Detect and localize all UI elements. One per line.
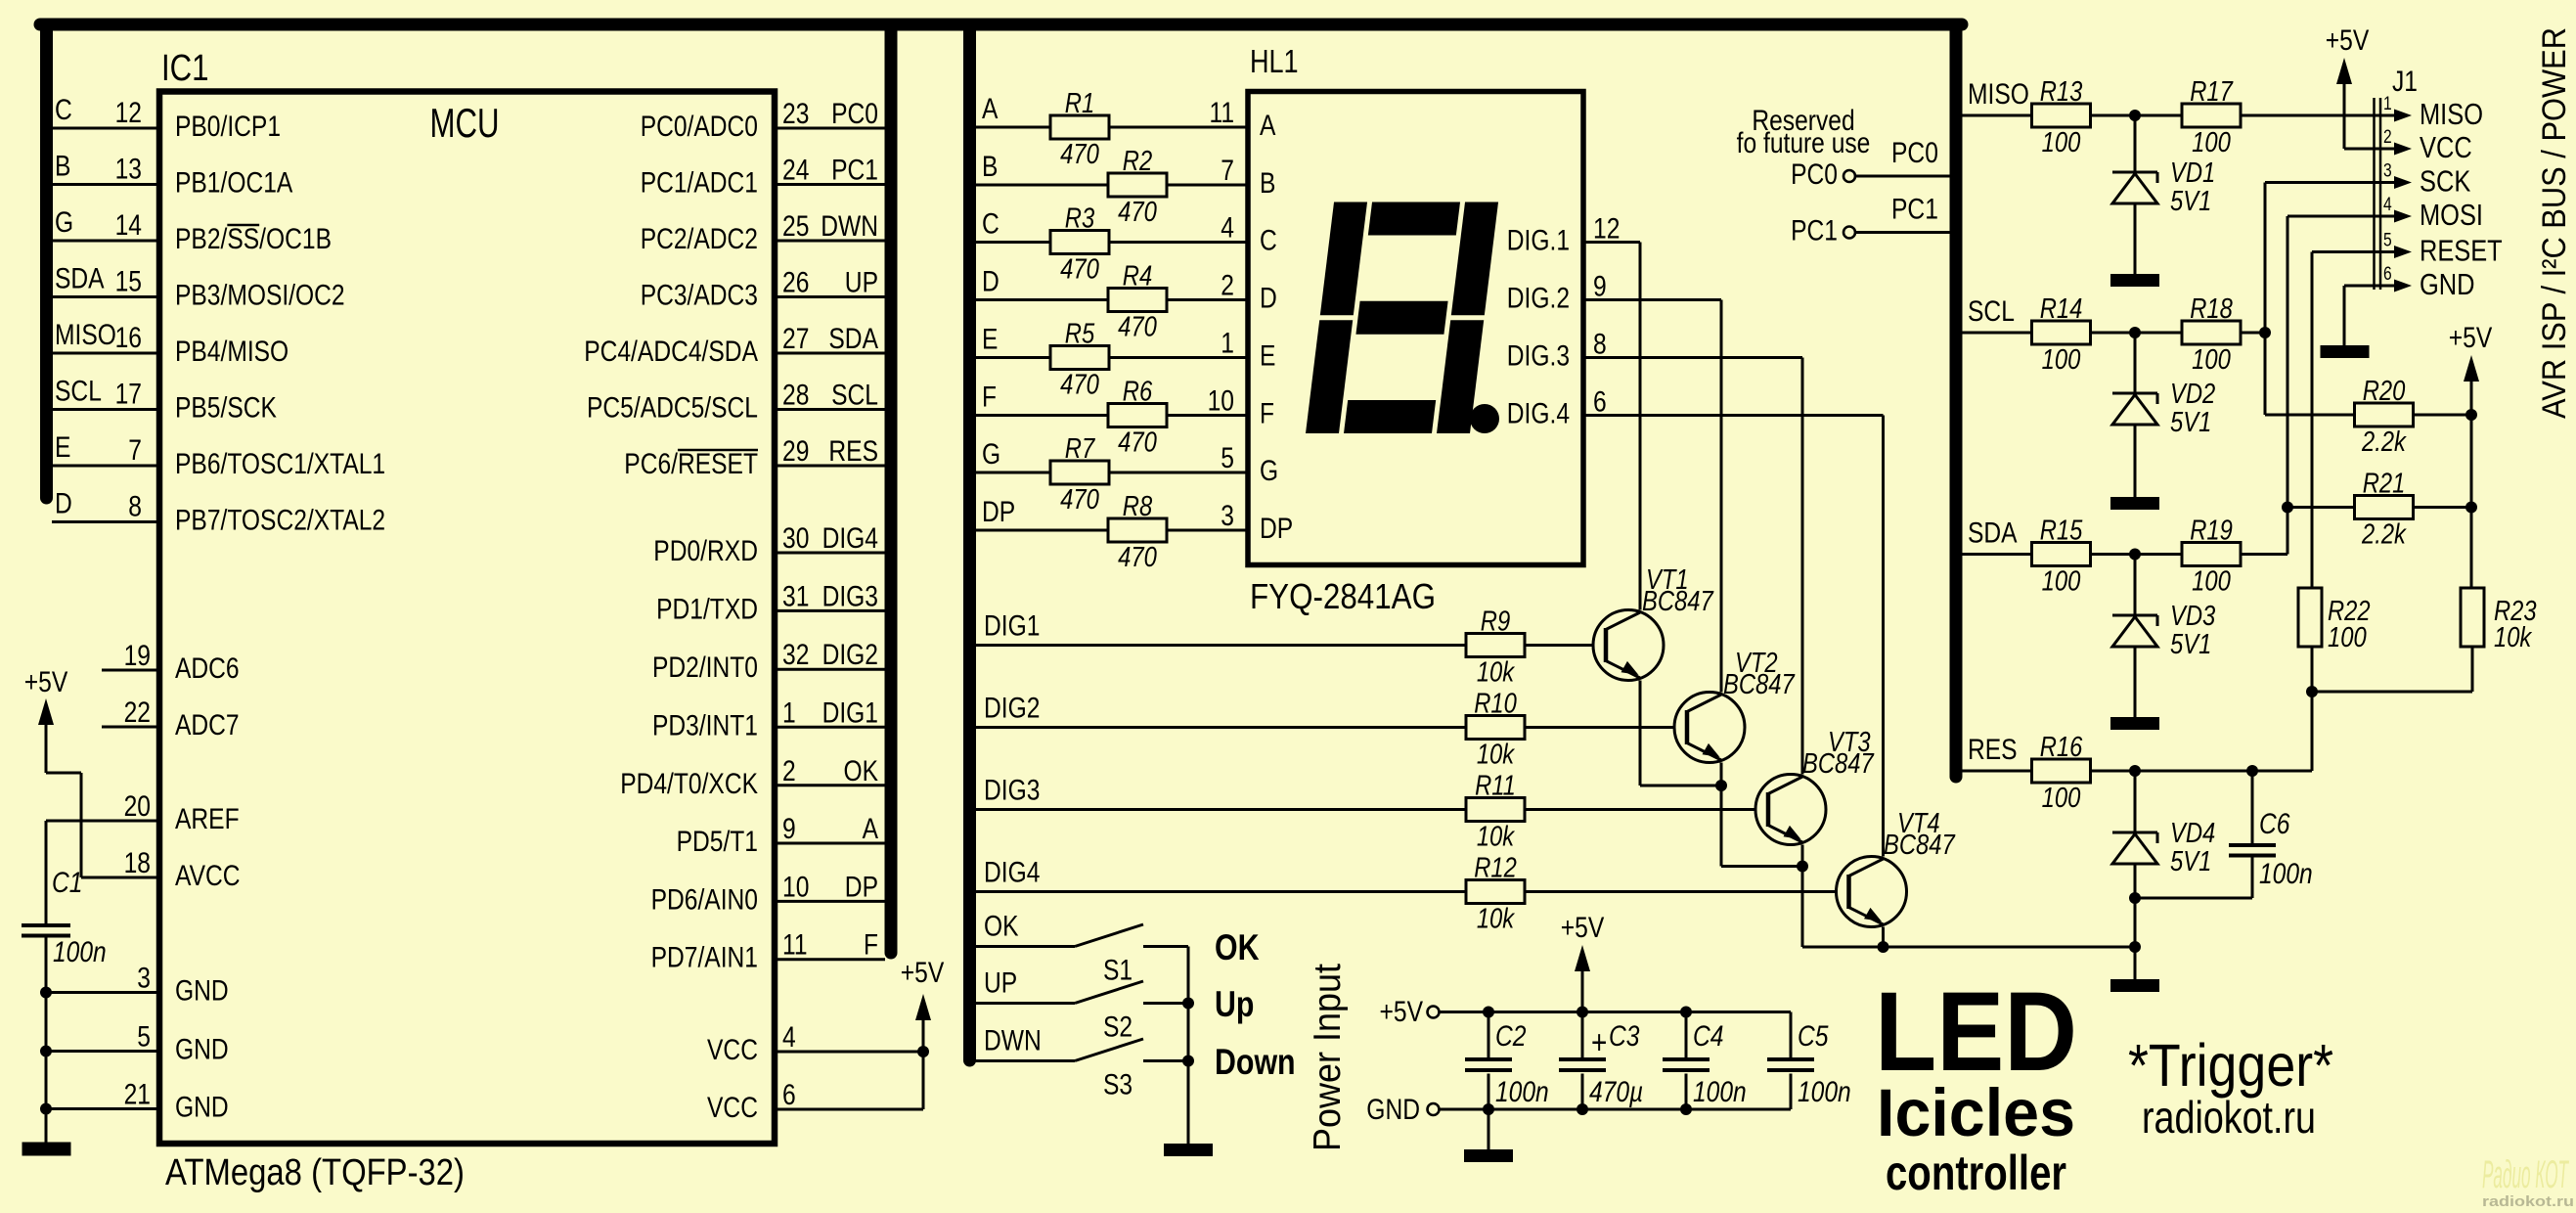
svg-text:GND: GND bbox=[2420, 267, 2475, 301]
svg-text:27: 27 bbox=[782, 323, 809, 355]
svg-text:DIG.4: DIG.4 bbox=[1507, 398, 1570, 430]
svg-text:DIG1: DIG1 bbox=[984, 610, 1040, 643]
svg-text:fo future use: fo future use bbox=[1737, 127, 1871, 159]
svg-text:5V1: 5V1 bbox=[2170, 407, 2211, 438]
svg-text:R18: R18 bbox=[2190, 293, 2233, 325]
svg-text:PD7/AIN1: PD7/AIN1 bbox=[651, 942, 758, 974]
svg-text:PB5/SCK: PB5/SCK bbox=[175, 392, 277, 425]
svg-text:MCU: MCU bbox=[430, 100, 500, 146]
svg-text:3: 3 bbox=[137, 963, 151, 995]
svg-text:DIG.3: DIG.3 bbox=[1507, 340, 1570, 373]
svg-text:S2: S2 bbox=[1103, 1011, 1133, 1044]
svg-text:+5V: +5V bbox=[901, 957, 945, 989]
svg-text:PB4/MISO: PB4/MISO bbox=[175, 336, 289, 368]
svg-text:2.2k: 2.2k bbox=[2361, 427, 2407, 458]
svg-text:100n: 100n bbox=[1495, 1076, 1549, 1108]
svg-text:RES: RES bbox=[828, 435, 878, 468]
svg-text:PC0/ADC0: PC0/ADC0 bbox=[641, 111, 758, 143]
svg-text:10k: 10k bbox=[1477, 657, 1516, 689]
svg-text:C3: C3 bbox=[1609, 1020, 1640, 1053]
svg-text:Down: Down bbox=[1215, 1042, 1296, 1082]
svg-text:PB6/TOSC1/XTAL1: PB6/TOSC1/XTAL1 bbox=[175, 448, 385, 480]
svg-text:10: 10 bbox=[782, 871, 809, 903]
svg-text:100: 100 bbox=[2042, 127, 2081, 158]
svg-text:470µ: 470µ bbox=[1589, 1076, 1643, 1108]
svg-text:VD2: VD2 bbox=[2170, 379, 2215, 410]
svg-text:12: 12 bbox=[1593, 213, 1620, 246]
svg-text:100: 100 bbox=[2042, 783, 2081, 814]
svg-text:D: D bbox=[55, 488, 72, 520]
svg-text:OK: OK bbox=[984, 911, 1019, 943]
svg-text:100: 100 bbox=[2192, 566, 2231, 598]
svg-text:R16: R16 bbox=[2040, 732, 2083, 763]
svg-text:SCL: SCL bbox=[831, 380, 878, 412]
svg-text:PC2/ADC2: PC2/ADC2 bbox=[641, 223, 758, 255]
svg-text:IC1: IC1 bbox=[161, 48, 209, 89]
svg-text:PC1: PC1 bbox=[831, 155, 878, 187]
svg-text:4: 4 bbox=[1221, 212, 1234, 245]
svg-text:100n: 100n bbox=[53, 936, 107, 968]
svg-text:BC847: BC847 bbox=[1802, 748, 1875, 780]
svg-text:SDA: SDA bbox=[828, 323, 878, 355]
svg-text:PD2/INT0: PD2/INT0 bbox=[652, 651, 758, 684]
svg-text:25: 25 bbox=[782, 210, 809, 243]
svg-text:ADC6: ADC6 bbox=[175, 652, 240, 685]
svg-text:17: 17 bbox=[115, 379, 142, 411]
svg-text:R8: R8 bbox=[1123, 491, 1152, 522]
svg-text:6: 6 bbox=[1593, 386, 1607, 419]
svg-text:5V1: 5V1 bbox=[2170, 629, 2211, 660]
svg-text:DIG4: DIG4 bbox=[822, 522, 878, 555]
svg-text:SCK: SCK bbox=[2420, 164, 2471, 199]
svg-text:PC0: PC0 bbox=[1891, 137, 1938, 169]
svg-text:8: 8 bbox=[128, 491, 142, 523]
svg-text:DP: DP bbox=[982, 496, 1015, 528]
svg-text:R14: R14 bbox=[2040, 293, 2083, 325]
svg-text:8: 8 bbox=[1593, 329, 1607, 361]
svg-text:ADC7: ADC7 bbox=[175, 709, 240, 741]
svg-text:VD3: VD3 bbox=[2170, 601, 2215, 632]
svg-text:C1: C1 bbox=[52, 867, 83, 899]
svg-text:A: A bbox=[1260, 110, 1275, 142]
svg-text:Icicles: Icicles bbox=[1877, 1075, 2075, 1150]
svg-text:5: 5 bbox=[137, 1021, 151, 1054]
svg-text:R3: R3 bbox=[1065, 203, 1094, 235]
svg-text:G: G bbox=[982, 438, 1000, 471]
svg-text:3: 3 bbox=[2383, 161, 2392, 182]
svg-text:+5V: +5V bbox=[2326, 24, 2370, 57]
svg-text:32: 32 bbox=[782, 639, 809, 671]
svg-text:7: 7 bbox=[128, 434, 142, 467]
svg-text:470: 470 bbox=[1060, 484, 1099, 516]
svg-text:470: 470 bbox=[1118, 312, 1157, 343]
svg-text:R4: R4 bbox=[1123, 261, 1152, 292]
svg-text:RESET: RESET bbox=[2420, 234, 2503, 268]
svg-text:100: 100 bbox=[2042, 344, 2081, 376]
svg-text:A: A bbox=[982, 93, 998, 125]
svg-text:10k: 10k bbox=[2494, 622, 2533, 653]
svg-text:11: 11 bbox=[782, 929, 808, 962]
svg-text:100: 100 bbox=[2192, 344, 2231, 376]
svg-text:*Trigger*: *Trigger* bbox=[2128, 1032, 2333, 1099]
svg-text:10k: 10k bbox=[1477, 740, 1516, 771]
svg-text:PC1/ADC1: PC1/ADC1 bbox=[641, 167, 758, 200]
svg-text:5: 5 bbox=[1221, 442, 1234, 474]
svg-text:PD6/AIN0: PD6/AIN0 bbox=[651, 883, 758, 916]
svg-text:29: 29 bbox=[782, 435, 809, 468]
svg-text:21: 21 bbox=[124, 1079, 151, 1111]
svg-text:9: 9 bbox=[1593, 271, 1607, 303]
svg-text:DWN: DWN bbox=[821, 210, 878, 243]
svg-text:GND: GND bbox=[175, 1034, 229, 1066]
svg-text:D: D bbox=[982, 266, 999, 298]
svg-text:SCL: SCL bbox=[1968, 295, 2015, 328]
svg-text:E: E bbox=[55, 431, 70, 464]
svg-text:1: 1 bbox=[1221, 328, 1234, 360]
svg-text:C2: C2 bbox=[1495, 1020, 1527, 1053]
svg-text:2: 2 bbox=[782, 755, 796, 787]
svg-text:J1: J1 bbox=[2392, 66, 2418, 98]
svg-text:20: 20 bbox=[124, 790, 151, 823]
svg-text:DIG2: DIG2 bbox=[822, 639, 878, 671]
svg-text:DWN: DWN bbox=[984, 1025, 1042, 1057]
svg-text:PD5/T1: PD5/T1 bbox=[677, 826, 758, 858]
svg-text:GND: GND bbox=[175, 975, 229, 1008]
svg-text:C: C bbox=[55, 94, 72, 126]
svg-text:470: 470 bbox=[1060, 370, 1099, 401]
svg-text:VD1: VD1 bbox=[2170, 157, 2215, 189]
svg-text:GND: GND bbox=[175, 1092, 229, 1124]
svg-text:+5V: +5V bbox=[1380, 996, 1424, 1028]
svg-text:4: 4 bbox=[2383, 195, 2392, 215]
svg-text:B: B bbox=[55, 151, 70, 183]
svg-text:VCC: VCC bbox=[707, 1092, 758, 1124]
svg-text:E: E bbox=[982, 324, 998, 356]
svg-text:VCC: VCC bbox=[2420, 130, 2472, 164]
svg-text:MISO: MISO bbox=[1968, 78, 2029, 111]
svg-text:PB0/ICP1: PB0/ICP1 bbox=[175, 111, 281, 143]
svg-text:PC1: PC1 bbox=[1791, 215, 1838, 247]
svg-text:12: 12 bbox=[115, 97, 142, 129]
svg-text:MISO: MISO bbox=[2420, 97, 2483, 131]
svg-text:16: 16 bbox=[115, 322, 142, 354]
svg-text:B: B bbox=[1260, 167, 1275, 200]
svg-text:F: F bbox=[864, 929, 878, 962]
svg-text:B: B bbox=[982, 151, 998, 183]
svg-text:SDA: SDA bbox=[1968, 517, 2018, 550]
svg-text:26: 26 bbox=[782, 267, 809, 299]
svg-text:Power Input: Power Input bbox=[1307, 964, 1349, 1151]
svg-text:19: 19 bbox=[124, 640, 151, 672]
svg-text:DIG.1: DIG.1 bbox=[1507, 225, 1570, 257]
svg-text:PB7/TOSC2/XTAL2: PB7/TOSC2/XTAL2 bbox=[175, 505, 385, 537]
svg-text:G: G bbox=[55, 206, 73, 239]
svg-text:RES: RES bbox=[1968, 734, 2018, 766]
svg-text:OK: OK bbox=[1215, 927, 1260, 967]
svg-text:F: F bbox=[982, 382, 997, 414]
svg-text:5: 5 bbox=[2383, 231, 2392, 251]
svg-text:100n: 100n bbox=[1693, 1076, 1747, 1108]
svg-text:DIG3: DIG3 bbox=[984, 775, 1040, 807]
svg-text:D: D bbox=[1260, 283, 1277, 315]
svg-text:R19: R19 bbox=[2190, 516, 2233, 547]
svg-text:100n: 100n bbox=[1798, 1076, 1851, 1108]
svg-text:PC5/ADC5/SCL: PC5/ADC5/SCL bbox=[587, 392, 758, 425]
svg-text:R6: R6 bbox=[1123, 377, 1153, 408]
svg-text:PC6/RESET: PC6/RESET bbox=[624, 448, 758, 480]
svg-text:+: + bbox=[1591, 1024, 1607, 1061]
svg-text:DIG.2: DIG.2 bbox=[1507, 283, 1570, 315]
svg-text:PD1/TXD: PD1/TXD bbox=[656, 593, 758, 625]
svg-text:24: 24 bbox=[782, 155, 809, 187]
svg-text:F: F bbox=[1260, 398, 1274, 430]
svg-text:SDA: SDA bbox=[55, 263, 105, 295]
svg-text:DIG3: DIG3 bbox=[822, 580, 878, 612]
svg-text:PC0: PC0 bbox=[831, 98, 878, 130]
svg-text:100n: 100n bbox=[2259, 858, 2313, 890]
svg-text:R1: R1 bbox=[1065, 88, 1094, 119]
svg-text:E: E bbox=[1260, 340, 1275, 373]
svg-text:ATMega8 (TQFP-32): ATMega8 (TQFP-32) bbox=[165, 1152, 465, 1193]
svg-text:100: 100 bbox=[2328, 622, 2367, 653]
svg-text:15: 15 bbox=[115, 266, 142, 298]
svg-text:R5: R5 bbox=[1065, 319, 1095, 350]
svg-text:Радио КОТ: Радио КОТ bbox=[2482, 1153, 2569, 1196]
svg-text:+5V: +5V bbox=[2449, 322, 2493, 354]
svg-text:AVCC: AVCC bbox=[175, 860, 241, 892]
svg-text:S1: S1 bbox=[1103, 955, 1133, 987]
svg-text:470: 470 bbox=[1118, 197, 1157, 228]
svg-text:PC0: PC0 bbox=[1791, 158, 1838, 191]
svg-text:28: 28 bbox=[782, 380, 809, 412]
svg-text:R10: R10 bbox=[1474, 689, 1517, 720]
svg-text:+5V: +5V bbox=[1561, 912, 1605, 944]
svg-text:UP: UP bbox=[984, 967, 1017, 1000]
svg-text:2: 2 bbox=[2383, 127, 2392, 148]
svg-text:100: 100 bbox=[2192, 127, 2231, 158]
svg-text:radiokot.ru: radiokot.ru bbox=[2482, 1193, 2574, 1210]
svg-text:7: 7 bbox=[1221, 155, 1234, 187]
svg-text:9: 9 bbox=[782, 813, 796, 845]
svg-text:PB3/MOSI/OC2: PB3/MOSI/OC2 bbox=[175, 280, 345, 312]
svg-text:C: C bbox=[982, 208, 999, 241]
svg-text:MOSI: MOSI bbox=[2420, 198, 2483, 232]
svg-text:PD3/INT1: PD3/INT1 bbox=[652, 709, 758, 741]
svg-text:10: 10 bbox=[1208, 385, 1234, 418]
svg-text:OK: OK bbox=[844, 755, 879, 787]
svg-text:VD4: VD4 bbox=[2170, 818, 2215, 849]
svg-text:13: 13 bbox=[115, 154, 142, 186]
svg-text:18: 18 bbox=[124, 847, 151, 879]
svg-text:SCL: SCL bbox=[55, 376, 102, 408]
svg-text:FYQ-2841AG: FYQ-2841AG bbox=[1250, 576, 1436, 616]
svg-text:11: 11 bbox=[1210, 97, 1235, 129]
svg-text:HL1: HL1 bbox=[1250, 43, 1299, 79]
svg-text:BC847: BC847 bbox=[1642, 586, 1714, 617]
svg-text:radiokot.ru: radiokot.ru bbox=[2142, 1092, 2316, 1143]
svg-text:R12: R12 bbox=[1474, 853, 1517, 884]
svg-text:AVR ISP / I²C BUS / POWER: AVR ISP / I²C BUS / POWER bbox=[2536, 27, 2573, 419]
svg-text:31: 31 bbox=[782, 580, 809, 612]
svg-text:22: 22 bbox=[124, 696, 151, 729]
svg-text:2.2k: 2.2k bbox=[2361, 519, 2407, 551]
svg-text:1: 1 bbox=[782, 696, 796, 729]
svg-text:14: 14 bbox=[115, 209, 142, 242]
svg-text:470: 470 bbox=[1060, 254, 1099, 286]
svg-text:controller: controller bbox=[1886, 1146, 2066, 1200]
svg-text:470: 470 bbox=[1118, 427, 1157, 459]
svg-text:10k: 10k bbox=[1477, 822, 1516, 853]
svg-text:C5: C5 bbox=[1798, 1020, 1829, 1053]
svg-text:6: 6 bbox=[782, 1079, 796, 1111]
svg-text:VCC: VCC bbox=[707, 1034, 758, 1066]
svg-text:470: 470 bbox=[1118, 542, 1157, 573]
svg-text:R20: R20 bbox=[2363, 376, 2406, 407]
svg-text:MISO: MISO bbox=[55, 319, 116, 351]
svg-text:PC4/ADC4/SDA: PC4/ADC4/SDA bbox=[584, 336, 758, 368]
svg-text:R21: R21 bbox=[2363, 469, 2406, 500]
svg-text:+5V: +5V bbox=[24, 666, 68, 698]
svg-text:PB1/OC1A: PB1/OC1A bbox=[175, 167, 292, 200]
svg-text:BC847: BC847 bbox=[1884, 830, 1956, 861]
svg-text:Up: Up bbox=[1215, 984, 1254, 1024]
svg-text:UP: UP bbox=[845, 267, 878, 299]
svg-text:DIG4: DIG4 bbox=[984, 857, 1040, 889]
svg-text:10k: 10k bbox=[1477, 904, 1516, 935]
svg-text:1: 1 bbox=[2383, 94, 2392, 114]
svg-text:5V1: 5V1 bbox=[2170, 186, 2211, 217]
svg-text:DP: DP bbox=[1260, 513, 1293, 545]
svg-text:6: 6 bbox=[2383, 264, 2392, 285]
svg-text:A: A bbox=[863, 813, 878, 845]
svg-text:R9: R9 bbox=[1481, 606, 1510, 638]
svg-text:PD4/T0/XCK: PD4/T0/XCK bbox=[620, 768, 758, 800]
svg-text:23: 23 bbox=[782, 98, 809, 130]
svg-text:3: 3 bbox=[1221, 500, 1234, 532]
svg-text:R7: R7 bbox=[1065, 433, 1096, 465]
svg-text:R15: R15 bbox=[2040, 516, 2083, 547]
svg-text:C4: C4 bbox=[1693, 1020, 1724, 1053]
svg-text:AREF: AREF bbox=[175, 803, 240, 835]
svg-text:GND: GND bbox=[1366, 1094, 1420, 1126]
svg-text:DIG1: DIG1 bbox=[822, 696, 878, 729]
svg-text:R17: R17 bbox=[2190, 76, 2234, 108]
svg-text:C: C bbox=[1260, 225, 1277, 257]
svg-text:DIG2: DIG2 bbox=[984, 693, 1040, 725]
svg-text:R13: R13 bbox=[2040, 76, 2083, 108]
svg-text:R2: R2 bbox=[1123, 146, 1152, 177]
svg-text:30: 30 bbox=[782, 522, 809, 555]
svg-text:4: 4 bbox=[782, 1021, 796, 1054]
svg-text:R11: R11 bbox=[1475, 771, 1516, 802]
svg-text:C6: C6 bbox=[2259, 808, 2290, 840]
svg-text:5V1: 5V1 bbox=[2170, 846, 2211, 877]
svg-text:G: G bbox=[1260, 455, 1278, 487]
svg-text:470: 470 bbox=[1060, 139, 1099, 170]
svg-text:PD0/RXD: PD0/RXD bbox=[653, 535, 758, 567]
svg-text:PB2/SS/OC1B: PB2/SS/OC1B bbox=[175, 223, 332, 255]
svg-text:PC1: PC1 bbox=[1891, 194, 1938, 226]
svg-text:PC3/ADC3: PC3/ADC3 bbox=[641, 280, 758, 312]
svg-text:DP: DP bbox=[845, 871, 878, 903]
svg-text:2: 2 bbox=[1221, 270, 1234, 302]
svg-text:S3: S3 bbox=[1103, 1069, 1133, 1101]
svg-text:BC847: BC847 bbox=[1723, 669, 1796, 700]
svg-text:100: 100 bbox=[2042, 566, 2081, 598]
